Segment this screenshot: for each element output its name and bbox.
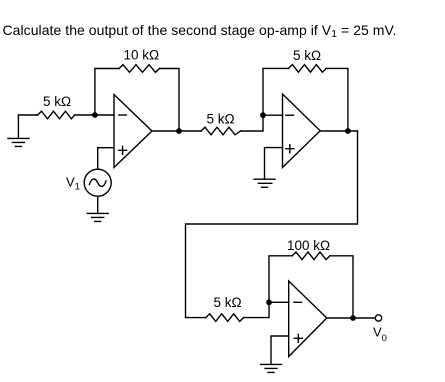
resistor 5k (stage 2 feedback) <box>289 65 327 73</box>
wire <box>75 114 114 116</box>
resistor R1 5k (stage 1 input) <box>38 111 75 119</box>
ground (op2 noninverting) <box>254 179 275 187</box>
wire (feedback left riser) <box>95 69 119 116</box>
wire (op2 output) <box>320 130 357 132</box>
wire (stage2 to stage3 link) <box>186 131 358 318</box>
svg-text:100 kΩ: 100 kΩ <box>287 238 330 253</box>
resistor 5k (stage 3 input) <box>206 314 244 322</box>
svg-text:5 kΩ: 5 kΩ <box>214 295 242 310</box>
node F (op3 output junction) <box>351 316 355 320</box>
svg-text:10 kΩ: 10 kΩ <box>124 48 160 63</box>
wire <box>18 114 37 116</box>
wire <box>263 114 283 116</box>
op-amp U3 <box>289 281 327 357</box>
wire (stage3 feedback right riser) <box>330 256 353 318</box>
svg-text:5 kΩ: 5 kΩ <box>207 112 235 127</box>
U2 plus pin mark <box>286 145 294 153</box>
op-amp U2 <box>283 94 321 168</box>
wire <box>244 302 269 317</box>
op-amp U1 <box>114 95 152 168</box>
resistor 100k (stage 3 feedback) <box>292 252 330 260</box>
wire (stage2 feedback right riser) <box>326 68 348 131</box>
node D (op2 output junction) <box>346 129 350 133</box>
wire (op1 noninverting lead) <box>98 148 114 170</box>
svg-text:5 kΩ: 5 kΩ <box>293 48 321 63</box>
wire (op2 noninverting lead) <box>265 148 283 180</box>
wire (stage3 feedback left riser) <box>269 256 292 302</box>
ground (op3 noninverting) <box>261 364 282 372</box>
wire <box>97 196 99 213</box>
wire <box>241 115 263 131</box>
node B (op1 output junction) <box>177 129 181 133</box>
terminal Vo (open circle) <box>375 315 381 321</box>
wire (op3 output) <box>327 317 376 319</box>
wire (stage2 feedback left riser) <box>263 68 289 115</box>
resistor 5k (stage 2 input) <box>201 127 241 135</box>
wire <box>269 301 289 303</box>
U2 minus pin mark <box>286 114 294 116</box>
svg-text:5 kΩ: 5 kΩ <box>43 94 71 109</box>
ground (stage 1 input) <box>8 115 29 146</box>
node E (op3 inverting input junction) <box>267 300 271 304</box>
ground (below V1) <box>87 213 108 221</box>
wire (op1 output) <box>152 130 201 132</box>
U1 minus pin mark <box>119 114 127 116</box>
wire (feedback right riser) <box>160 69 180 132</box>
source V1 <box>84 169 111 196</box>
node C (op2 inverting input junction) <box>261 113 265 117</box>
U3 plus pin mark <box>294 334 302 342</box>
svg-text:Calculate the output of the se: Calculate the output of the second stage… <box>3 22 397 40</box>
resistor 10k (stage 1 feedback) <box>119 65 160 73</box>
U3 minus pin mark <box>294 301 302 303</box>
node A (op1 inverting input junction) <box>93 113 97 117</box>
wire (op3 noninverting lead) <box>271 336 289 364</box>
U1 plus pin mark <box>119 146 127 154</box>
